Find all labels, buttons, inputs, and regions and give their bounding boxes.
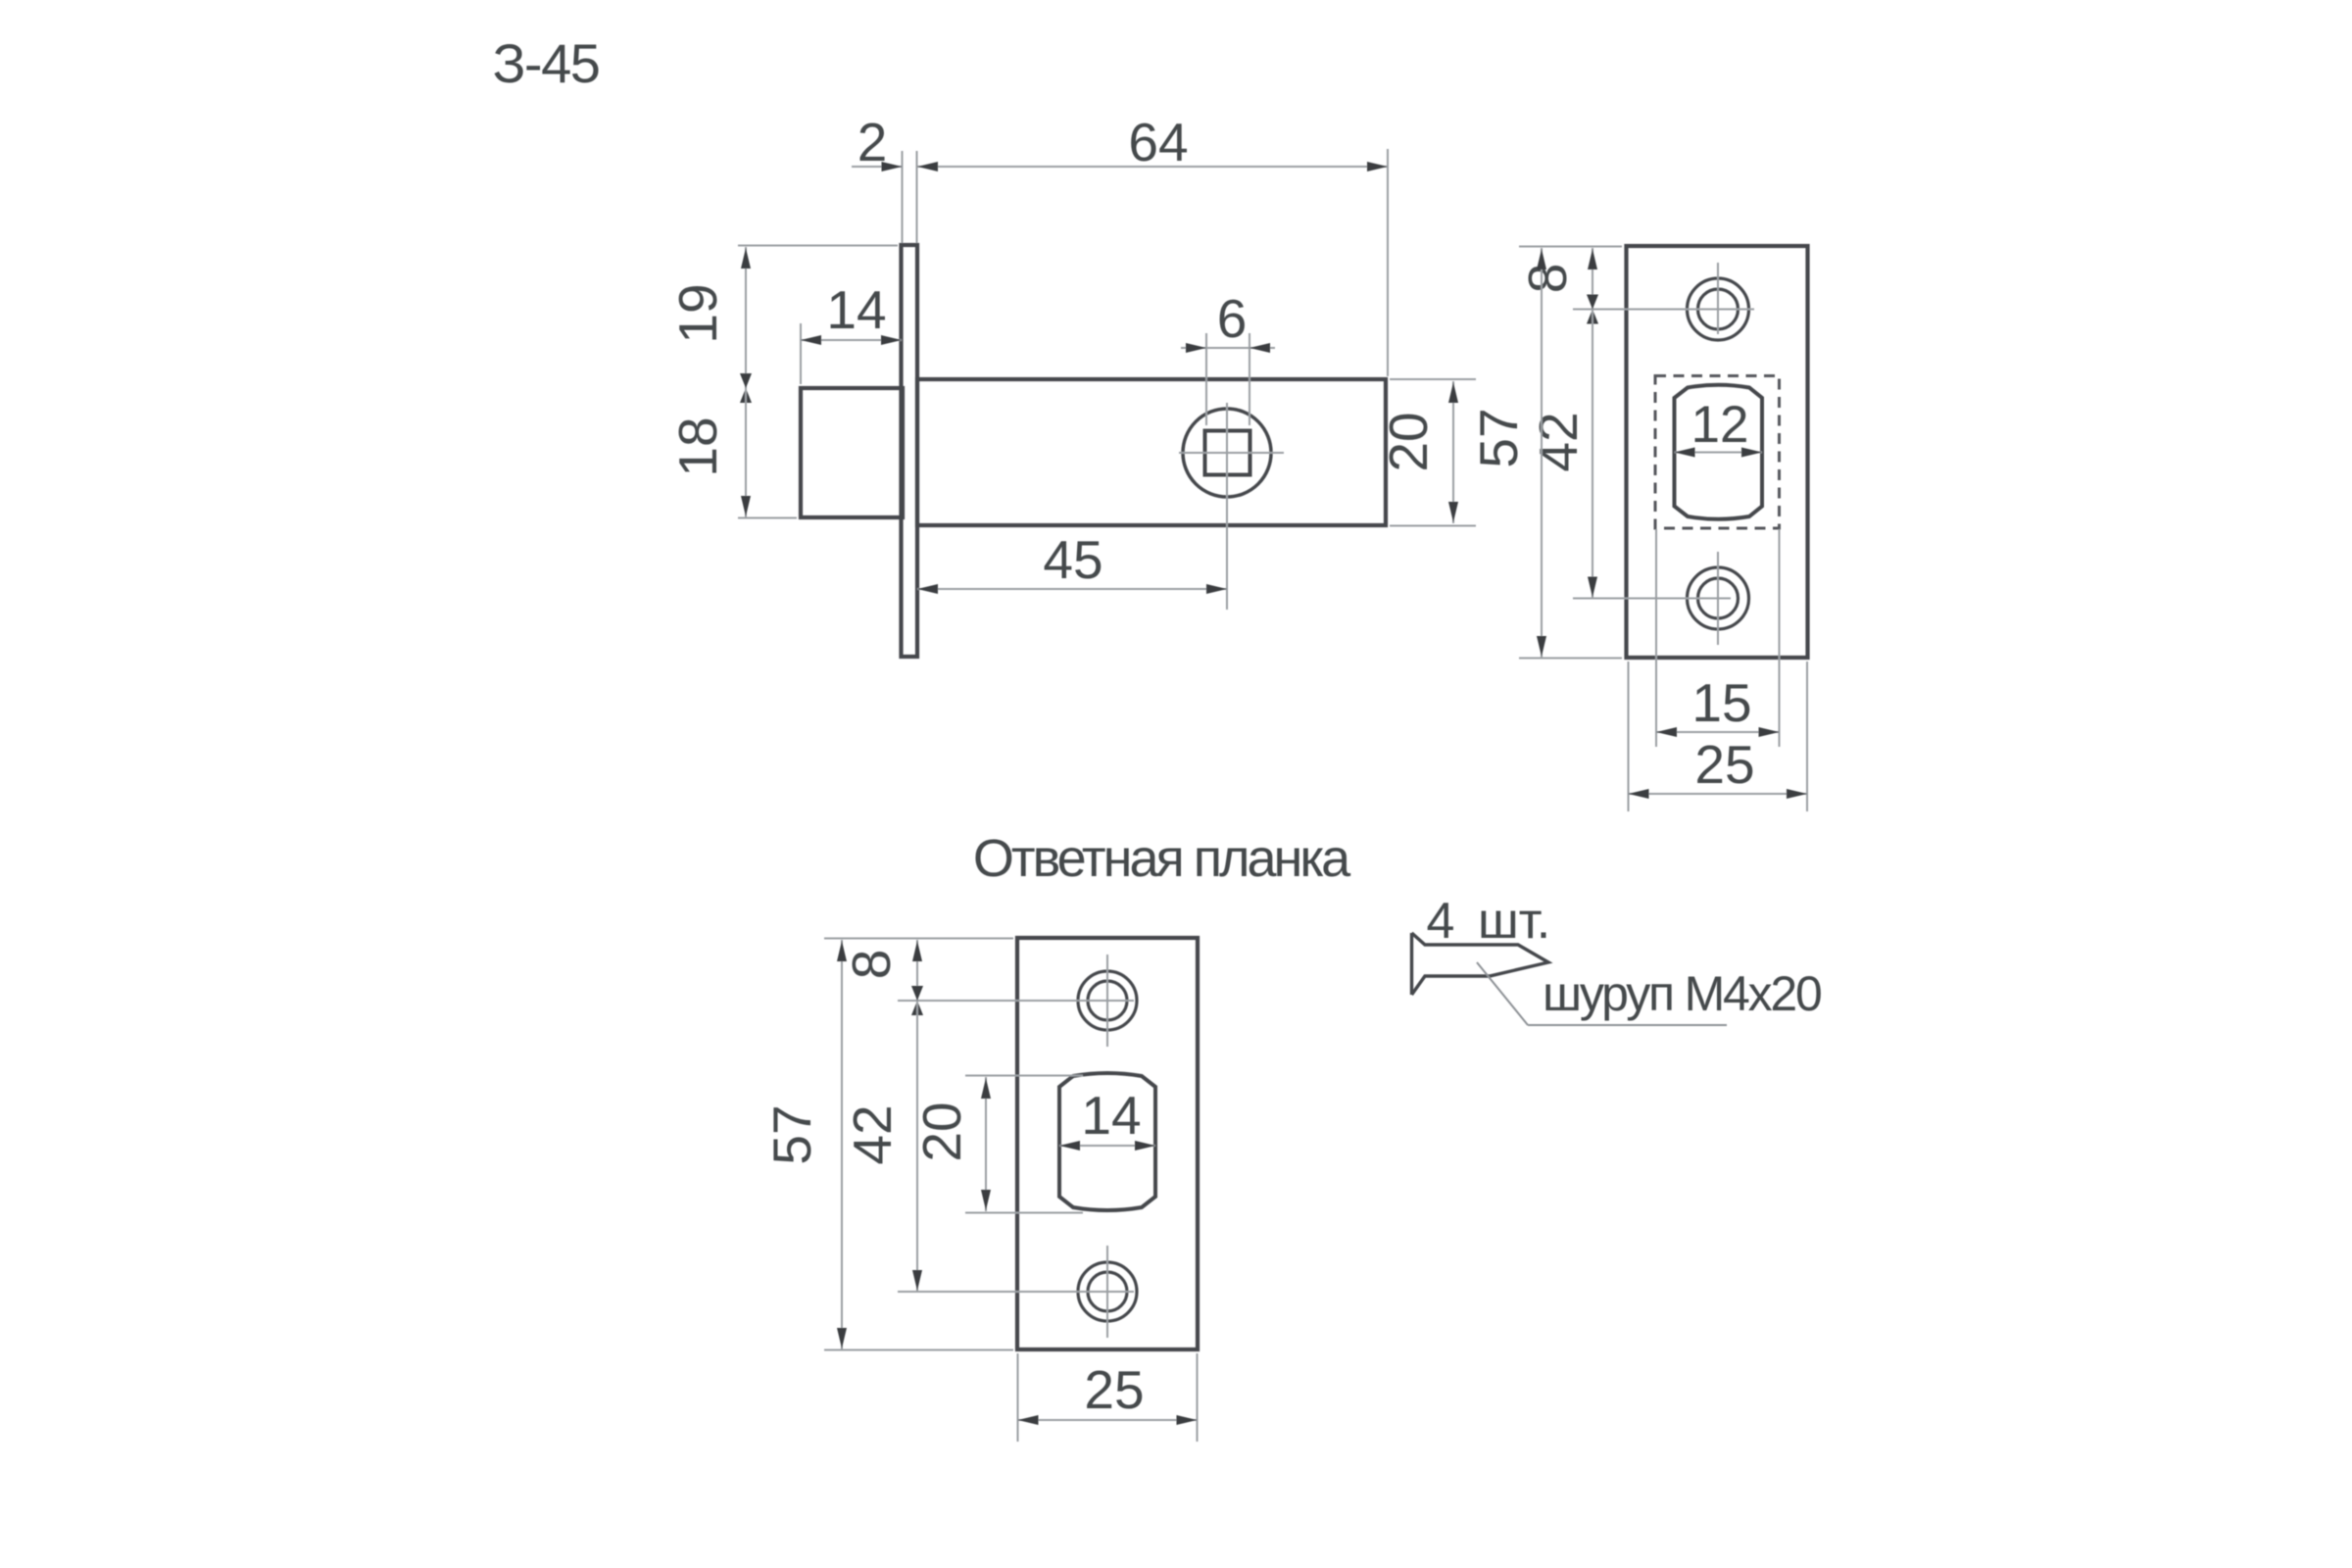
svg-text:42: 42: [1528, 412, 1589, 471]
sp dim 8-42 bowtie: [911, 986, 923, 1001]
sp bottom ext line: [824, 1349, 1013, 1351]
sp dim 25 arrow right: [1177, 1415, 1198, 1425]
dim 2 line tail: [852, 166, 902, 168]
dim 18 line: [745, 388, 747, 517]
dim 20 ext line bottom: [1390, 525, 1476, 527]
fp dim 25 arrow right: [1787, 789, 1807, 799]
dim 6 arrow left: [1186, 343, 1206, 353]
sp dim 42 arrow bottom: [912, 1270, 922, 1291]
fp dim 57 line: [1541, 248, 1543, 658]
svg-text:шт.: шт.: [1478, 893, 1550, 950]
fp dim 8 arrow top: [1588, 249, 1597, 269]
fp dim 57 arrow top: [1537, 249, 1546, 269]
fp dim 12 arrow left: [1675, 448, 1695, 458]
screw leader underline: [1528, 1024, 1727, 1026]
dim 2 ext line right: [916, 151, 918, 243]
fp dim 15 ext line left: [1655, 529, 1657, 747]
dim 64 arrow left: [917, 162, 938, 171]
dim 6 line: [1181, 347, 1275, 349]
svg-text:25: 25: [1084, 1359, 1144, 1420]
sp dim 57 arrow bottom: [837, 1328, 847, 1348]
sp dim 20 ext bottom: [965, 1212, 1083, 1214]
face plate outline: [1627, 246, 1808, 658]
top hole centerline vertical: [1717, 263, 1719, 334]
dim 18 arrow bottom: [741, 496, 751, 516]
sp latch hole (octagon): [1059, 1073, 1155, 1210]
dim 6 arrow right: [1249, 343, 1270, 353]
sp top screw hole outer: [1078, 971, 1137, 1030]
sp dim 20 line: [985, 1077, 987, 1211]
dim 14 arrow left: [801, 335, 821, 345]
svg-text:57: 57: [761, 1104, 822, 1164]
face plate top screw hole inner: [1698, 289, 1739, 329]
sp dim 57 line: [841, 940, 843, 1349]
sp dim 57 arrow top: [837, 941, 847, 961]
fp dim 15 ext line right: [1779, 529, 1781, 747]
sp dim 20 ext top: [965, 1075, 1083, 1077]
svg-text:57: 57: [1468, 408, 1529, 467]
fp dim 42 arrow bottom: [1588, 577, 1597, 598]
fp dim 25 ext line right: [1806, 661, 1808, 811]
fp dim 15 arrow right: [1759, 727, 1780, 737]
screw leader line: [1477, 962, 1528, 1025]
svg-text:З-45: З-45: [493, 32, 600, 94]
latch faceplate side view: [902, 245, 918, 657]
dim 18 ext line bottom: [738, 517, 797, 519]
svg-text:шуруп М4х20: шуруп М4х20: [1543, 966, 1821, 1021]
sp top ext line: [824, 938, 1013, 940]
sp top screw hole inner: [1088, 981, 1127, 1020]
dim 45 line: [917, 588, 1227, 590]
screw outline: [1410, 933, 1413, 995]
dim 19 arrow top: [741, 248, 751, 269]
dim 20 arrow bottom: [1448, 502, 1458, 522]
dim 14 line: [801, 339, 902, 341]
fp dim 57 bottom ext line: [1519, 658, 1622, 660]
sp dim 25 arrow left: [1018, 1415, 1039, 1425]
sp dim 14 arrow left: [1059, 1141, 1080, 1151]
sp dim 20 arrow top: [981, 1078, 991, 1099]
dim 14 arrow right: [881, 335, 902, 345]
fp dim top ext line: [1519, 246, 1622, 248]
fp dim 42 line: [1592, 310, 1593, 599]
sp top hole centerline v: [1106, 955, 1108, 1047]
face plate bottom screw hole outer: [1688, 567, 1749, 629]
dim 20 line: [1452, 381, 1454, 523]
sp top hole centerline h: [898, 1000, 1134, 1002]
sp bottom hole centerline v: [1106, 1246, 1108, 1338]
sp dim 14 arrow right: [1135, 1141, 1155, 1151]
svg-text:20: 20: [911, 1102, 972, 1161]
dim 2 ext line left: [902, 151, 904, 243]
svg-text:25: 25: [1694, 734, 1754, 795]
svg-text:64: 64: [1128, 112, 1188, 172]
svg-text:19: 19: [667, 283, 728, 343]
svg-text:18: 18: [667, 416, 728, 476]
fp dim 25 arrow left: [1629, 789, 1649, 799]
svg-text:6: 6: [1217, 288, 1248, 349]
latch bolt: [801, 388, 903, 517]
face plate top screw hole outer: [1688, 278, 1749, 340]
sp dim 14 line: [1059, 1145, 1155, 1147]
dim 14 ext line: [800, 323, 802, 384]
fp dim 12 arrow right: [1741, 448, 1762, 458]
svg-text:Ответная планка: Ответная планка: [973, 829, 1351, 888]
svg-text:12: 12: [1691, 396, 1749, 454]
dim 20 arrow top: [1448, 382, 1458, 403]
latch body: [917, 379, 1386, 525]
spindle hole circle: [1183, 409, 1271, 497]
sp dim 25 line: [1018, 1419, 1198, 1421]
fp dim 25 line: [1629, 793, 1808, 795]
svg-text:4: 4: [1427, 893, 1455, 950]
sp bottom hole centerline h: [898, 1291, 1134, 1293]
dim 6 ext line left: [1205, 333, 1207, 425]
dim 2 arrow left: [882, 162, 903, 171]
sp dim 8 line: [916, 940, 918, 1001]
sp bottom screw hole outer: [1078, 1262, 1137, 1321]
dim 6 ext line right: [1249, 333, 1250, 425]
svg-text:15: 15: [1691, 672, 1751, 733]
fp dim 15 line: [1656, 731, 1780, 733]
fp dim 25 ext line left: [1628, 661, 1630, 811]
svg-text:42: 42: [842, 1104, 903, 1164]
svg-text:20: 20: [1378, 412, 1439, 471]
dim 64 arrow right: [1367, 162, 1388, 171]
svg-text:8: 8: [841, 950, 902, 980]
sp dim 42 line: [916, 1001, 918, 1292]
bottom hole centerline vertical: [1717, 552, 1719, 645]
dim 45 arrow left: [917, 584, 938, 594]
top hole centerline horizontal: [1573, 309, 1754, 311]
dashed latch opening zone: [1655, 376, 1780, 529]
dim 19-18 bowtie: [740, 373, 752, 388]
fp dim 57 arrow bottom: [1537, 636, 1546, 657]
dim 45 arrow right: [1206, 584, 1227, 594]
svg-text:45: 45: [1043, 529, 1102, 590]
dim 20 ext line top: [1390, 378, 1476, 380]
svg-text:14: 14: [1081, 1085, 1141, 1146]
sp dim 25 ext right: [1197, 1353, 1199, 1442]
sp dim 20 arrow bottom: [981, 1190, 991, 1210]
spindle square hole: [1205, 431, 1250, 475]
dim 19 ext line top: [738, 245, 898, 247]
dim 64 ext line right: [1387, 149, 1389, 376]
strike plate outline: [1017, 938, 1198, 1349]
spindle centerline horizontal: [1179, 452, 1284, 454]
svg-text:14: 14: [826, 279, 886, 340]
fp dim 8-42 bowtie: [1587, 295, 1598, 310]
latch hole (octagon) in face plate: [1675, 385, 1763, 519]
fp dim 8 line: [1592, 248, 1593, 310]
spindle centerline vertical: [1226, 403, 1228, 610]
fp dim 15 arrow left: [1656, 727, 1677, 737]
fp dim 12 line: [1675, 452, 1763, 454]
face plate bottom screw hole inner: [1698, 578, 1739, 618]
dim 19 line: [745, 247, 747, 388]
svg-text:2: 2: [857, 112, 888, 172]
sp bottom screw hole inner: [1088, 1272, 1127, 1311]
dim 64 line: [917, 166, 1388, 168]
sp dim 25 ext left: [1017, 1353, 1019, 1442]
svg-text:8: 8: [1517, 264, 1578, 294]
bottom hole centerline horizontal: [1573, 598, 1731, 600]
sp dim 8 arrow top: [912, 941, 922, 961]
